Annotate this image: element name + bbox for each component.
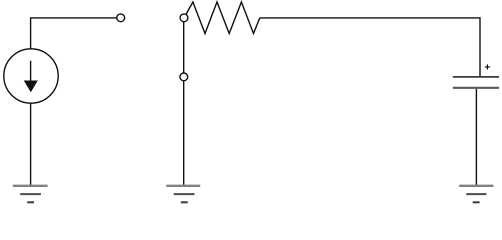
wire (475, 89, 477, 185)
wire (260, 18, 480, 76)
wire (183, 22, 185, 73)
resistor R1 (186, 2, 260, 34)
node (open terminal, top of middle branch) (180, 14, 188, 22)
capacitor C1 (453, 63, 499, 88)
wire (183, 81, 185, 185)
ground (13, 186, 48, 203)
node (open terminal, middle of branch) (180, 73, 188, 81)
svg-text:+: + (485, 63, 491, 74)
wire (31, 18, 117, 49)
wire (30, 103, 32, 185)
ground (166, 186, 200, 203)
ground (459, 186, 493, 203)
node (open terminal) (117, 14, 125, 22)
current source I1 (4, 49, 58, 103)
